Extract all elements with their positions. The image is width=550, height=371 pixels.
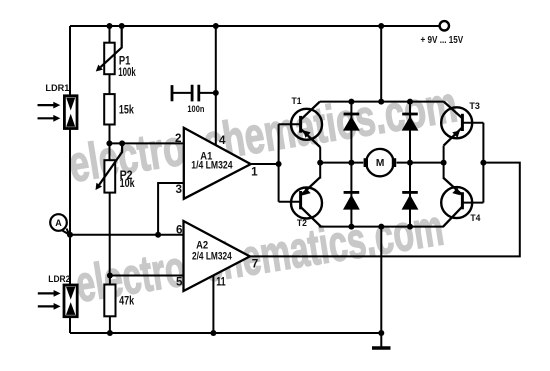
op-amp A2 [176,221,258,291]
resistor 47k [104,285,134,317]
svg-text:1/4 LM324: 1/4 LM324 [191,159,233,171]
junction bridge bottom right diode [407,224,413,230]
svg-text:10k: 10k [120,176,135,190]
wire T1 base [279,123,301,125]
svg-text:T2: T2 [297,218,307,229]
ground [372,346,391,350]
transistor T2 [291,177,322,229]
wire pin2 row [109,142,183,144]
junction ground rail [378,330,384,336]
potentiometer P2 [96,143,135,192]
junction motor rail left diode [348,160,354,166]
svg-text:100n: 100n [187,104,204,115]
svg-text:+ 9V ... 15V: + 9V ... 15V [421,35,464,46]
svg-text:15k: 15k [119,103,134,117]
junction 47k bottom [107,330,113,336]
wire A2 output loop to right side [250,163,520,257]
junction motor rail right diode [407,160,413,166]
junction P1 top [107,23,113,29]
svg-text:LDR1: LDR1 [45,83,70,94]
LDR2 [38,274,77,317]
junction P1 wiper top [119,23,125,29]
motor M [364,149,397,176]
junction bridge top left diode [348,99,354,105]
supply terminal [421,21,464,46]
diode D2 top-right [402,114,419,131]
wire ground drop from bridge [380,227,382,348]
junction node A pin3 [155,232,161,238]
wire T1 T2 emitter tie [319,147,321,179]
wire T4 base [462,202,483,204]
wire T3 T4 base tie vertical [482,123,484,203]
wire resistor column P1-15k [109,26,111,143]
svg-text:A: A [55,218,62,228]
diode D3 bottom-left [343,192,360,209]
wire supply drop to bridge [380,26,382,102]
wire A1 output [251,163,279,165]
wire motor rail left [320,162,363,164]
wire bridge top rail [320,101,444,103]
transistor T4 [441,178,481,227]
svg-text:5: 5 [176,276,183,288]
junction cap to pin4 [213,90,219,96]
diode D1 top-left [343,114,360,131]
svg-text:T1: T1 [292,96,303,107]
node A callout [50,214,69,234]
wire motor rail right [397,162,444,164]
junction bridge top right diode [407,99,413,105]
svg-text:M: M [376,158,385,169]
wire P2 bottom lead crossing node A row [109,193,111,276]
junction node A left [67,232,73,238]
svg-text:100k: 100k [118,65,136,79]
wire pin5 row [110,275,184,277]
junction P2 wiper [119,140,125,146]
junction bridge bottom left diode [348,224,354,230]
svg-text:T3: T3 [469,101,480,112]
junction 15k bottom [106,140,112,146]
junction emitter tie left [317,160,323,166]
junction pin11 bottom [210,330,216,336]
wire pin11 vertical [212,275,214,333]
junction pin4 rail [213,23,219,29]
wire node A row [70,234,184,236]
potentiometer P1 [96,26,136,79]
junction emitter tie right [441,160,447,166]
capacitor 100n [172,85,216,115]
wire top supply rail [70,25,440,27]
LDR1 [38,83,78,128]
wire pin3 bend [158,183,184,235]
resistor 15k [104,94,134,124]
svg-text:3: 3 [176,184,183,196]
wire 47k leads [109,276,111,334]
transistor T3 [441,101,480,146]
junction bridge bottom ground [378,224,384,230]
svg-text:47k: 47k [119,294,134,308]
svg-text:11: 11 [216,276,226,288]
junction 47k top [107,273,113,279]
wire P2 top lead [109,143,111,160]
op-amp A1 [175,128,258,199]
junction A1 output [276,161,282,167]
wire left diode leg [350,102,352,227]
svg-text:2/4 LM324: 2/4 LM324 [192,250,232,262]
diode D4 bottom-right [402,192,419,209]
wire bottom ground rail [70,332,381,334]
wire T3 base [462,122,483,124]
svg-text:2: 2 [175,133,182,145]
svg-text:LDR2: LDR2 [48,274,70,285]
wire right diode leg [409,102,411,227]
wire bridge bottom rail [319,226,444,228]
svg-text:1: 1 [251,167,258,179]
wire pin4 vertical [215,26,217,145]
junction supply drop [378,23,384,29]
wire T1 T2 base tie vertical [278,124,280,201]
svg-text:6: 6 [176,225,183,237]
junction base tie right [480,160,486,166]
wire left vertical (LDR column) [69,26,71,333]
junction bridge top supply [378,99,384,105]
transistor T1 [291,96,322,147]
svg-text:7: 7 [252,259,258,271]
svg-text:4: 4 [219,135,226,147]
svg-text:T4: T4 [470,213,481,224]
wire T3 T4 emitter tie [443,146,445,179]
wire T2 base [279,201,301,203]
